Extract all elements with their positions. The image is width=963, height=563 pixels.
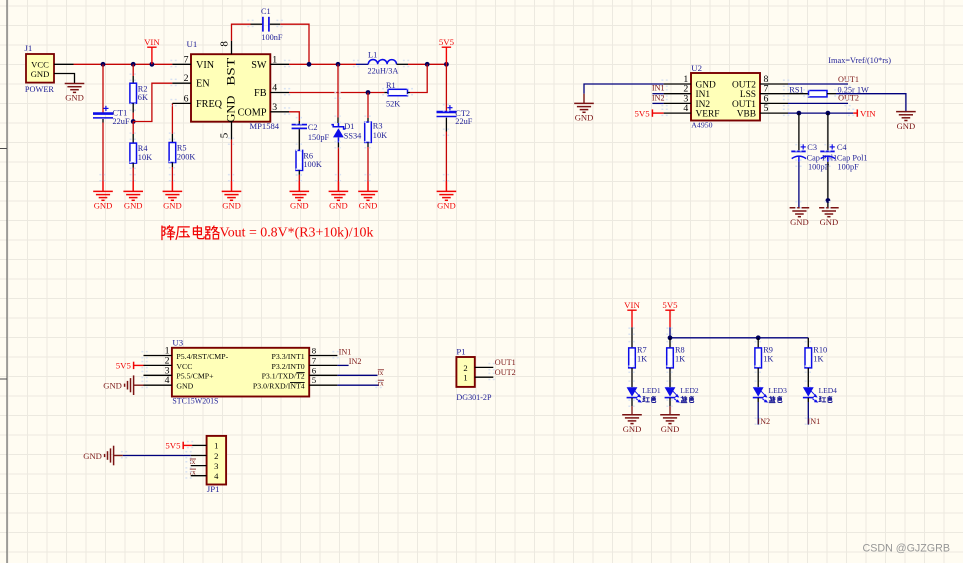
- svg-text:U2: U2: [691, 63, 702, 73]
- resistor R6 100K: [296, 150, 303, 170]
- svg-text:3: 3: [214, 461, 218, 471]
- wire LED4 to net IN1: [807, 398, 809, 402]
- svg-text:GND: GND: [329, 201, 348, 211]
- wire LED1 to ground: [631, 398, 633, 406]
- capacitor C2 150pF: [289, 112, 299, 121]
- wire bus to R8: [669, 338, 671, 348]
- svg-text:VIN: VIN: [624, 300, 640, 310]
- ground GND under LED1: [622, 415, 642, 424]
- svg-text:GND: GND: [222, 201, 241, 211]
- svg-text:C3: C3: [807, 143, 817, 152]
- svg-text:P3.2/INT0: P3.2/INT0: [272, 362, 305, 371]
- junction C3: [797, 111, 802, 116]
- svg-text:GND: GND: [163, 201, 182, 211]
- svg-text:JP1: JP1: [207, 484, 220, 494]
- wire R1 to output node: [410, 64, 427, 92]
- svg-text:1K: 1K: [637, 355, 647, 364]
- svg-text:100K: 100K: [303, 160, 321, 169]
- junction at VIN port: [150, 62, 155, 67]
- svg-text:OUT1: OUT1: [838, 75, 859, 84]
- wire net tx: [337, 374, 377, 376]
- svg-text:5: 5: [219, 132, 231, 138]
- capacitor C4 100pF: [827, 113, 829, 150]
- ground GND under C3: [790, 208, 810, 217]
- wire L1 to 5V5: [408, 63, 446, 65]
- svg-text:C2: C2: [308, 123, 318, 132]
- svg-text:R10: R10: [813, 346, 827, 355]
- LED4 red: [803, 387, 814, 396]
- diode D1 SS34 schottky: [337, 64, 339, 117]
- svg-text:5V5: 5V5: [662, 300, 678, 310]
- JP1 pin 4: [191, 475, 207, 477]
- svg-text:2: 2: [214, 451, 218, 461]
- svg-text:7: 7: [184, 54, 189, 65]
- junction D1/SW: [336, 62, 341, 67]
- inductor L1 22uH/3A: [356, 63, 368, 65]
- U3 pin 1: [144, 355, 172, 357]
- resistor R9 1K: [755, 348, 762, 368]
- svg-text:1K: 1K: [763, 355, 773, 364]
- resistor R8 1K: [667, 348, 674, 368]
- overline on INT4: [290, 382, 305, 384]
- svg-text:R5: R5: [177, 144, 187, 153]
- ground GND under C4: [819, 208, 839, 217]
- svg-text:10K: 10K: [373, 131, 387, 140]
- svg-text:R8: R8: [675, 346, 685, 355]
- resistor R5 200K: [171, 103, 173, 133]
- wire CT1 to GND: [102, 123, 104, 182]
- resistor R4 10K: [132, 122, 134, 135]
- power port 5V5 at U2: [651, 109, 653, 116]
- ground GND at JP1 pin2: [105, 446, 114, 466]
- wire LED bus: [670, 337, 808, 339]
- svg-text:OUT1: OUT1: [732, 100, 756, 110]
- svg-text:4: 4: [165, 375, 170, 386]
- wire SW net: [289, 63, 356, 65]
- svg-text:GND: GND: [224, 95, 238, 123]
- svg-text:5: 5: [312, 375, 317, 385]
- svg-text:LSS: LSS: [740, 90, 756, 100]
- svg-text:1K: 1K: [675, 355, 685, 364]
- svg-text:R3: R3: [373, 121, 383, 130]
- U1 pin 3 COMP: [270, 111, 289, 113]
- svg-text:GND: GND: [176, 382, 193, 391]
- svg-text:22uF: 22uF: [455, 117, 472, 126]
- U2 pin 2: [664, 93, 691, 95]
- U3 pin 5: [309, 384, 337, 386]
- LED3 blue: [753, 387, 764, 396]
- connector JP1: [207, 436, 227, 485]
- overline on T2: [296, 372, 304, 374]
- svg-text:1: 1: [463, 373, 467, 383]
- svg-text:OUT2: OUT2: [495, 368, 516, 377]
- svg-text:VIN: VIN: [196, 60, 215, 71]
- svg-text:P3.3/INT1: P3.3/INT1: [272, 352, 305, 361]
- U2 pin 4: [664, 112, 691, 114]
- svg-text:DG301-2P: DG301-2P: [456, 393, 492, 402]
- svg-text:5V5: 5V5: [439, 37, 455, 47]
- wire VBB net: [788, 112, 853, 114]
- LED2 blue: [665, 387, 676, 396]
- U1 pin 8 BST: [231, 41, 233, 55]
- junction output: [444, 62, 449, 67]
- junction R3/FB: [366, 90, 371, 95]
- svg-text:VIN: VIN: [860, 108, 876, 118]
- ground GND under R6: [290, 181, 310, 200]
- svg-text:5V5: 5V5: [165, 441, 181, 451]
- svg-text:VCC: VCC: [176, 362, 192, 371]
- junction R9: [756, 335, 761, 340]
- svg-text:5V5: 5V5: [635, 108, 651, 118]
- ground GND under CT2: [437, 181, 457, 200]
- svg-text:7: 7: [312, 355, 317, 365]
- U1 pin 2: [172, 82, 191, 84]
- svg-text:tx: tx: [378, 369, 384, 377]
- wire VCC to U1 VIN: [74, 63, 173, 65]
- svg-text:CSDN @GJZGRB: CSDN @GJZGRB: [863, 543, 950, 555]
- svg-text:P5.4/RST/CMP-: P5.4/RST/CMP-: [176, 352, 228, 361]
- svg-text:D1: D1: [344, 122, 354, 131]
- junction feedback: [425, 62, 430, 67]
- svg-text:100nF: 100nF: [261, 33, 283, 42]
- ground GND at U3 pin4: [125, 375, 134, 395]
- svg-text:1: 1: [272, 54, 277, 65]
- svg-text:100pF: 100pF: [838, 163, 860, 172]
- svg-text:IN2: IN2: [652, 93, 665, 102]
- svg-text:2: 2: [184, 73, 189, 84]
- wire LED2 to ground: [669, 398, 671, 406]
- svg-text:1K: 1K: [813, 355, 823, 364]
- J1 pin VCC: [54, 63, 74, 65]
- svg-text:GND: GND: [103, 381, 122, 391]
- U3 pin 2: [144, 364, 172, 366]
- svg-text:GND: GND: [83, 451, 102, 461]
- svg-text:R9: R9: [763, 346, 773, 355]
- svg-text:GND: GND: [359, 201, 378, 211]
- resistor R10 1K: [805, 348, 812, 368]
- wire bus to R9: [757, 338, 759, 348]
- U1 pin 4 FB: [270, 92, 289, 94]
- svg-text:4: 4: [272, 83, 277, 94]
- svg-text:IN1: IN1: [339, 348, 352, 357]
- JP1 pin 3: [191, 465, 207, 467]
- ground GND left of U2: [583, 94, 585, 104]
- wire net IN2: [652, 102, 663, 104]
- wire RS1 to ground: [836, 94, 906, 112]
- wire GND to JP1 pin2: [123, 455, 191, 457]
- annotation red formula text: [162, 226, 175, 240]
- LED1 red: [627, 387, 638, 396]
- svg-text:R4: R4: [138, 144, 149, 153]
- wire U1 GND pin to ground: [231, 140, 233, 181]
- ground GND under U1: [222, 181, 242, 200]
- U2 pin 8: [760, 83, 788, 85]
- junction at CT1: [101, 62, 106, 67]
- svg-text:Imax=Vref/(10*rs): Imax=Vref/(10*rs): [828, 56, 891, 65]
- svg-text:P3.0/RXD/INT4: P3.0/RXD/INT4: [253, 382, 305, 391]
- svg-text:POWER: POWER: [25, 85, 55, 94]
- JP1 pin 1: [192, 444, 207, 446]
- svg-text:6K: 6K: [138, 93, 148, 102]
- junction at R2: [131, 62, 136, 67]
- svg-text:VBB: VBB: [737, 110, 756, 120]
- junction C1/SW: [307, 62, 312, 67]
- svg-text:IN2: IN2: [696, 100, 711, 110]
- U1 pin 5 GND: [231, 122, 233, 140]
- svg-text:Vout = 0.8V*(R3+10k)/10k: Vout = 0.8V*(R3+10k)/10k: [220, 226, 374, 241]
- svg-text:GND: GND: [437, 201, 456, 211]
- svg-text:3: 3: [272, 102, 277, 113]
- U3 pin 4: [144, 384, 172, 386]
- U2 pin 1: [664, 83, 691, 85]
- svg-text:GND: GND: [65, 93, 84, 103]
- svg-text:GND: GND: [290, 201, 309, 211]
- svg-text:10K: 10K: [138, 153, 152, 162]
- capacitor C3 100pF: [798, 113, 800, 150]
- svg-text:Cap Pol1: Cap Pol1: [837, 153, 868, 162]
- svg-text:VIN: VIN: [144, 37, 160, 47]
- power port 5V5 at U3: [133, 362, 135, 369]
- ground GND under R4: [123, 181, 143, 200]
- U1 pin 6: [172, 102, 191, 104]
- svg-text:IN1: IN1: [652, 84, 665, 93]
- svg-text:VERF: VERF: [696, 110, 720, 120]
- svg-text:U1: U1: [187, 39, 198, 49]
- svg-text:R7: R7: [637, 346, 647, 355]
- svg-text:GND: GND: [820, 217, 839, 227]
- svg-text:OUT2: OUT2: [732, 81, 756, 91]
- svg-text:GND: GND: [623, 424, 642, 434]
- U3 pin 3: [144, 374, 172, 376]
- svg-text:P3.1/TXD/T2: P3.1/TXD/T2: [262, 372, 305, 381]
- capacitor CT2 22uF: [445, 64, 447, 111]
- svg-text:GND: GND: [790, 217, 809, 227]
- svg-text:IN2: IN2: [349, 357, 362, 366]
- svg-text:U3: U3: [172, 338, 183, 348]
- U2 pin 5: [760, 112, 788, 114]
- wire net IN1: [652, 93, 663, 95]
- ground GND under R3: [358, 181, 378, 200]
- svg-text:22uF: 22uF: [113, 117, 130, 126]
- svg-text:8: 8: [312, 346, 317, 356]
- ground GND under R5: [163, 181, 183, 200]
- svg-text:FB: FB: [254, 88, 267, 99]
- wire net OUT1 pin8: [788, 83, 848, 85]
- wire C1 to SW node: [280, 24, 309, 64]
- svg-text:STC15W201S: STC15W201S: [172, 396, 218, 405]
- svg-text:C4: C4: [837, 143, 848, 152]
- svg-text:P5.5/CMP+: P5.5/CMP+: [176, 372, 214, 381]
- sheet border line: [0, 0, 7, 563]
- svg-text:LED2: LED2: [680, 386, 699, 395]
- wire R2 to node: [132, 113, 134, 122]
- U3 pin 6: [309, 374, 337, 376]
- svg-text:6: 6: [184, 93, 189, 104]
- svg-text:L1: L1: [368, 50, 377, 59]
- wire net rx: [337, 384, 379, 386]
- ground GND under CT1: [93, 181, 113, 200]
- svg-text:J1: J1: [25, 43, 33, 53]
- svg-text:P1: P1: [456, 347, 465, 357]
- svg-text:MP1584: MP1584: [250, 121, 280, 131]
- wire BST to C1: [232, 24, 251, 41]
- svg-text:150pF: 150pF: [308, 133, 330, 142]
- svg-text:LED1: LED1: [642, 386, 661, 395]
- ground GND under J1: [65, 83, 85, 92]
- U3 pin 7: [309, 364, 337, 366]
- wire bus to R10: [807, 338, 809, 348]
- U1 pin 7: [172, 63, 191, 65]
- junction C4: [826, 111, 831, 116]
- wire EN to node: [133, 83, 172, 121]
- wire 5V5 to bus: [669, 327, 671, 338]
- junction R8: [668, 335, 673, 340]
- svg-text:5: 5: [764, 103, 769, 114]
- svg-text:200K: 200K: [177, 153, 195, 162]
- U2 pin 6: [760, 102, 788, 104]
- ground GND right of U2: [896, 112, 916, 121]
- svg-text:OUT2: OUT2: [838, 93, 859, 102]
- svg-text:IN1: IN1: [696, 90, 711, 100]
- svg-text:4: 4: [683, 103, 688, 114]
- svg-text:2: 2: [463, 363, 467, 373]
- wire C3 to ground: [798, 162, 800, 208]
- svg-text:SS34: SS34: [344, 131, 362, 140]
- svg-text:GND: GND: [575, 113, 594, 123]
- svg-text:C1: C1: [261, 7, 271, 16]
- wire C4 to ground: [827, 162, 829, 208]
- svg-text:GND: GND: [31, 69, 50, 79]
- svg-text:GND: GND: [94, 201, 113, 211]
- svg-text:6: 6: [312, 365, 317, 375]
- wire net IN2 at U3: [337, 364, 348, 366]
- svg-text:GND: GND: [661, 424, 680, 434]
- U1 pin 1 SW: [270, 63, 289, 65]
- junction R2/R4/EN node: [131, 119, 136, 124]
- svg-text:5V5: 5V5: [116, 361, 132, 371]
- power port VIN at U2: [856, 109, 858, 116]
- resistor R3 10K: [367, 93, 369, 119]
- svg-text:8: 8: [218, 41, 230, 47]
- svg-text:LED4: LED4: [819, 386, 838, 395]
- svg-text:OUT1: OUT1: [495, 358, 516, 367]
- resistor R2 6K: [132, 64, 134, 76]
- svg-text:GND: GND: [897, 121, 916, 131]
- P1 pin 1: [475, 376, 494, 378]
- svg-text:BST: BST: [224, 57, 238, 86]
- U2 pin 7: [760, 93, 788, 95]
- resistor R7 1K: [629, 348, 636, 368]
- svg-text:A4950: A4950: [691, 120, 712, 129]
- svg-text:1: 1: [214, 441, 218, 451]
- svg-text:GND: GND: [124, 201, 143, 211]
- ground GND under D1: [329, 181, 349, 200]
- JP1 pin 2: [191, 455, 207, 457]
- svg-text:100pF: 100pF: [808, 163, 830, 172]
- svg-text:EN: EN: [196, 79, 210, 90]
- wire U2 GND pin1 to ground: [584, 84, 664, 94]
- svg-text:RS1: RS1: [789, 85, 803, 94]
- wire LED3 to net IN2: [757, 398, 759, 402]
- junction on C4 wire: [826, 198, 831, 203]
- svg-text:SW: SW: [251, 60, 267, 71]
- svg-text:COMP: COMP: [238, 107, 267, 118]
- svg-text:4: 4: [214, 471, 219, 481]
- J1 pin GND wire: [54, 74, 75, 84]
- resistor R1 52K: [289, 92, 384, 94]
- svg-text:FREQ: FREQ: [196, 99, 223, 110]
- capacitor CT1 22uF: [102, 64, 104, 112]
- ground GND under LED2: [660, 415, 680, 424]
- U3 pin 8: [309, 355, 337, 357]
- wire net OUT2 pin6: [788, 102, 848, 104]
- power port 5V5 at JP1: [182, 442, 184, 449]
- svg-text:22uH/3A: 22uH/3A: [368, 67, 399, 76]
- svg-text:52K: 52K: [386, 99, 400, 108]
- svg-text:LED3: LED3: [769, 386, 788, 395]
- P1 pin 2: [475, 366, 494, 368]
- U2 pin 3: [664, 102, 691, 104]
- svg-text:GND: GND: [696, 81, 717, 91]
